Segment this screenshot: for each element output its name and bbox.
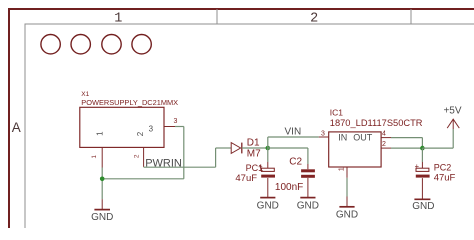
- connector X1 body: [80, 107, 164, 147]
- svg-text:IC1: IC1: [330, 108, 344, 118]
- svg-text:POWERSUPPLY_DC21MMX: POWERSUPPLY_DC21MMX: [81, 98, 178, 107]
- wire PC1 vertical down: [267, 148, 269, 162]
- IC1 pin 4 stub: [381, 137, 391, 139]
- svg-text:GND: GND: [257, 200, 279, 211]
- IC1 pin 3 stub: [319, 136, 329, 138]
- wire IC1 pin2 horizontal: [391, 147, 422, 149]
- wire +5V riser vertical: [452, 129, 454, 148]
- svg-text:47uF: 47uF: [434, 172, 456, 183]
- capacitor PC2 (polarized): [415, 162, 430, 200]
- svg-text:PC1: PC1: [246, 163, 264, 173]
- wire junction to +5V riser: [422, 147, 453, 149]
- mounting hole H3: [102, 35, 121, 54]
- IC1 pin 1 stub: [346, 168, 348, 178]
- svg-text:3: 3: [321, 130, 325, 137]
- wire C2 vertical down: [307, 148, 309, 164]
- regulator IC1 body: [329, 132, 381, 167]
- svg-text:GND: GND: [412, 201, 434, 212]
- diode D1: [231, 143, 242, 154]
- wire pin4 down to output rail: [421, 138, 423, 149]
- ground symbol C2: [300, 197, 315, 199]
- wire VIN horizontal to IC1: [268, 136, 319, 138]
- wire diode cathode to junction: [242, 147, 268, 149]
- wire junction right to C2: [268, 147, 308, 149]
- ground symbol X1: [94, 199, 110, 209]
- junction dot X1 gnd: [100, 177, 105, 182]
- capacitor PC1 (polarized): [258, 162, 275, 198]
- svg-text:PC2: PC2: [434, 163, 452, 173]
- mounting hole H1: [41, 35, 60, 54]
- wire VIN junction up: [267, 137, 269, 148]
- svg-text:2: 2: [134, 154, 141, 158]
- svg-text:IN: IN: [338, 132, 347, 142]
- wire pin3 stub to vertical: [175, 126, 184, 128]
- ground symbol PC2: [414, 198, 430, 200]
- svg-text:M7: M7: [247, 148, 261, 159]
- wire IC1 pin4 horizontal: [391, 137, 422, 139]
- svg-text:47uF: 47uF: [235, 173, 257, 184]
- ground symbol IC1: [339, 197, 354, 207]
- svg-text:4: 4: [382, 130, 386, 137]
- svg-text:VIN: VIN: [285, 127, 302, 138]
- wire gnd rail horizontal: [102, 178, 184, 180]
- X1 pin 3 stub: [164, 126, 175, 128]
- wire PWRIN vertical up: [215, 148, 217, 167]
- svg-text:3: 3: [174, 118, 178, 125]
- svg-text:+5V: +5V: [443, 105, 461, 116]
- svg-text:3: 3: [149, 124, 154, 133]
- wire PC2 vertical down: [421, 148, 423, 162]
- svg-text:1: 1: [114, 11, 122, 26]
- mounting hole H4: [132, 35, 151, 54]
- wire pin3 to gnd rail vertical: [183, 127, 185, 179]
- junction dot +5V: [420, 146, 425, 151]
- IC1 pin 2 stub: [381, 147, 391, 149]
- svg-text:1: 1: [95, 131, 104, 136]
- svg-text:2: 2: [310, 11, 318, 26]
- svg-text:OUT: OUT: [353, 132, 373, 142]
- svg-text:2: 2: [382, 141, 386, 148]
- svg-text:1: 1: [339, 167, 346, 171]
- svg-text:100nF: 100nF: [275, 182, 303, 193]
- svg-text:GND: GND: [297, 200, 319, 211]
- frame column divider 2|3: [410, 9, 412, 24]
- frame column divider 1|2: [216, 9, 218, 24]
- wire PWRIN horizontal: [144, 166, 216, 168]
- svg-text:2: 2: [136, 131, 145, 136]
- capacitor C2: [301, 164, 315, 198]
- X1 pin 1 stub: [101, 147, 103, 167]
- X1 pin 2 stub: [143, 147, 145, 167]
- svg-text:1870_LD1117S50CTR: 1870_LD1117S50CTR: [330, 118, 423, 128]
- svg-text:1: 1: [91, 155, 98, 159]
- svg-text:C2: C2: [289, 156, 302, 167]
- svg-text:A: A: [12, 120, 21, 135]
- ground symbol PC1: [260, 197, 275, 199]
- junction dot VIN: [266, 146, 271, 151]
- svg-text:GND: GND: [91, 212, 113, 223]
- wire pin1 down to junction: [101, 168, 103, 200]
- wire IC1 pin1 to gnd: [346, 178, 348, 197]
- wire PWRIN to diode anode: [216, 147, 232, 149]
- supply symbol +5V arrow: [447, 119, 459, 129]
- svg-text:D1: D1: [247, 137, 260, 148]
- mounting hole H2: [71, 35, 90, 54]
- svg-text:GND: GND: [336, 210, 358, 221]
